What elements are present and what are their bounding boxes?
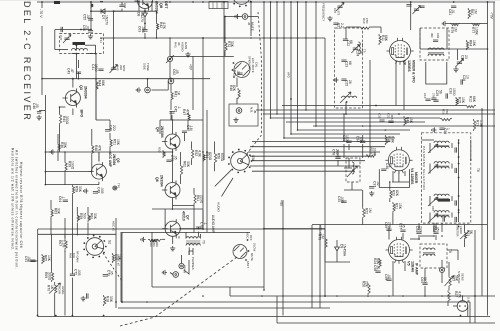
wire VFO bus line [270, 2, 272, 118]
svg-text:R20: R20 [392, 190, 396, 196]
coil VFO slug [342, 96, 357, 98]
junction [458, 195, 460, 197]
svg-text:16K: 16K [472, 40, 476, 47]
svg-text:Q5: Q5 [116, 158, 120, 163]
resistor R34 [91, 3, 93, 9]
wire cathode loop [379, 169, 409, 187]
svg-text:4.7K: 4.7K [162, 22, 166, 30]
jack J5 NB [236, 108, 242, 114]
wire IF rail [298, 129, 411, 131]
filter box PASSBAND SELECTOR [422, 133, 471, 223]
junction [324, 295, 326, 297]
junction [263, 228, 265, 230]
svg-text:68K: 68K [384, 35, 388, 42]
svg-text:10K: 10K [117, 254, 121, 261]
svg-text:1M: 1M [368, 208, 372, 213]
svg-text:SPKR OFF: SPKR OFF [248, 56, 252, 70]
transistor Q5 AGC AMP [88, 162, 106, 181]
svg-text:Q6: Q6 [155, 177, 159, 182]
svg-text:0-375: 0-375 [336, 8, 340, 16]
wire switch arm [215, 170, 232, 187]
ground [233, 118, 238, 123]
svg-text:.005: .005 [100, 187, 104, 194]
svg-text:56: 56 [438, 90, 442, 94]
wire phones net [189, 251, 193, 255]
junction [202, 151, 204, 153]
resistor R69 [52, 271, 54, 282]
capacitor C90 [416, 232, 421, 234]
switch AGC knob [233, 244, 247, 258]
junction [270, 1, 272, 3]
capacitor C81 [451, 6, 456, 8]
svg-text:C45: C45 [174, 106, 178, 112]
wire -70V feed upper [41, 2, 43, 8]
resistor R67 [65, 239, 67, 250]
capacitor C64 [63, 200, 68, 202]
switch S2 [83, 235, 106, 259]
scan mark [0, 0, 500, 1]
wire T8 out [441, 260, 443, 268]
transformer box T5 VFO [335, 28, 363, 108]
svg-text:C37: C37 [373, 181, 377, 187]
tube V4 MIXER [385, 147, 412, 174]
svg-text:1M: 1M [453, 27, 457, 32]
resistor R17 [474, 119, 476, 131]
wire VFO bus line [283, 2, 285, 138]
svg-text:12BE6: 12BE6 [407, 60, 411, 72]
svg-text:1M: 1M [473, 9, 477, 14]
capacitor C17 [419, 6, 424, 8]
capacitor C55 [88, 19, 93, 21]
junction [474, 295, 476, 297]
junction right col [481, 109, 483, 111]
svg-text:C90: C90 [415, 226, 419, 232]
resistor R24 [379, 258, 381, 268]
svg-text:R15: R15 [458, 97, 462, 103]
capacitor C53 series [61, 27, 63, 32]
wire [51, 234, 53, 271]
svg-text:C35: C35 [337, 196, 341, 202]
junction [458, 163, 460, 165]
svg-text:IF AMP: IF AMP [414, 263, 418, 276]
svg-text:DET: DET [164, 1, 168, 9]
svg-text:R70: R70 [47, 285, 51, 291]
capacitor C73 [166, 160, 171, 162]
resistor R81 [468, 8, 470, 19]
resistor R62 [181, 164, 183, 176]
svg-text:J4: J4 [247, 22, 251, 26]
svg-text:R18: R18 [387, 136, 391, 142]
junction [453, 1, 455, 3]
resistor R11 [379, 34, 381, 45]
wire right inner border [481, 108, 483, 296]
svg-text:270: 270 [431, 93, 435, 98]
junction audio [172, 119, 174, 121]
capacitor C87 [443, 216, 445, 221]
svg-text:C83: C83 [436, 33, 440, 39]
capacitor C49 [93, 192, 98, 194]
capacitor C22 [343, 39, 348, 41]
wire IF rail [286, 121, 425, 123]
svg-text:.05: .05 [402, 223, 406, 228]
svg-text:56K: 56K [455, 275, 459, 282]
wire audio box bottom [152, 286, 264, 288]
svg-text:.47: .47 [70, 68, 74, 73]
junction [144, 10, 146, 12]
wire AGC long line [38, 228, 325, 230]
svg-text:82K: 82K [395, 190, 399, 197]
svg-text:.01: .01 [85, 25, 89, 30]
coil filter dense [438, 199, 450, 202]
svg-text:47K: 47K [186, 109, 190, 116]
capacitor section 1 [455, 147, 457, 152]
transistor Q3 [62, 89, 80, 108]
junction [283, 1, 285, 3]
wire AGC box verticals [311, 225, 313, 308]
wire Q6 out [173, 205, 195, 207]
capacitor C45 [169, 112, 174, 114]
diode D7 [101, 9, 105, 14]
wire bottom bus 2 [122, 301, 470, 303]
svg-text:T9: T9 [202, 240, 206, 244]
junction [80, 29, 82, 31]
svg-text:C43: C43 [67, 68, 71, 74]
capacitor C25 [341, 79, 346, 81]
coil filter section 4 [434, 211, 449, 213]
svg-text:R24: R24 [373, 258, 377, 264]
svg-text:C73: C73 [170, 155, 174, 161]
capacitor C58 [375, 271, 380, 273]
svg-text:C78: C78 [332, 149, 336, 155]
wire Q4 bias [160, 119, 203, 121]
wire VFO bus line [305, 2, 307, 110]
svg-text:Highest resistor R78 Highe: Highest resistor R78 Highest capacitor C… [19, 162, 23, 248]
svg-text:.1M: .1M [189, 125, 193, 131]
svg-text:1N270: 1N270 [140, 12, 144, 22]
wire switch S3A line [252, 170, 355, 172]
svg-text:Q7: Q7 [186, 215, 190, 220]
svg-text:R42: R42 [159, 22, 163, 28]
wire R41 bottom [170, 111, 172, 120]
resistor R50 [163, 150, 165, 158]
svg-text:.01: .01 [86, 14, 90, 19]
wire Q7 input [180, 228, 203, 230]
transformer T9 [186, 237, 200, 239]
transistor Q4 [162, 132, 180, 151]
wire C55 branch [55, 29, 91, 31]
svg-text:.05: .05 [175, 69, 179, 74]
wire IF rail [291, 133, 400, 135]
capacitor C41 [98, 69, 103, 71]
svg-text:R61: R61 [196, 195, 200, 201]
svg-text:CAL: CAL [255, 62, 259, 68]
resistor R16 [440, 119, 452, 121]
svg-text:1500: 1500 [94, 64, 98, 72]
svg-text:R27: R27 [454, 291, 458, 297]
svg-text:AGC #1: AGC #1 [111, 221, 115, 231]
svg-text:C53: C53 [443, 128, 447, 134]
svg-text:R63: R63 [53, 208, 57, 214]
wire VFO bus line [276, 2, 278, 114]
svg-text:MIXER & VFO: MIXER & VFO [411, 60, 415, 83]
junction [282, 228, 284, 230]
svg-text:.05: .05 [110, 270, 114, 275]
svg-text:R11: R11 [381, 35, 385, 41]
jack PHONES [179, 263, 184, 268]
capacitor C69 [386, 229, 391, 231]
jack J4 MUTE [242, 14, 248, 20]
wire IF rail [282, 105, 465, 107]
svg-text:C63: C63 [138, 26, 142, 32]
junction [95, 78, 97, 80]
svg-text:C23: C23 [345, 61, 349, 67]
wire switch S3A line [252, 160, 365, 162]
svg-text:R21: R21 [395, 203, 399, 209]
svg-text:4.3K: 4.3K [197, 150, 201, 158]
junction left col [45, 151, 47, 153]
meter M [457, 301, 468, 312]
svg-text:33K: 33K [186, 161, 190, 168]
svg-text:C66: C66 [123, 3, 127, 9]
svg-text:T8: T8 [448, 249, 452, 253]
wire filter spine [458, 140, 460, 222]
svg-text:R48: R48 [94, 145, 98, 151]
resistor R41 [171, 91, 173, 101]
junction [458, 142, 460, 144]
tube V5 IF AMP [386, 237, 413, 264]
svg-text:TONE: TONE [146, 63, 150, 71]
junction rail 78 [41, 78, 43, 80]
wire V4 pin stubs [392, 171, 394, 182]
svg-text:R12: R12 [469, 96, 473, 102]
svg-text:C16: C16 [423, 93, 427, 99]
svg-text:AGC AMP: AGC AMP [108, 152, 112, 168]
tube V3 MIXER VFO [387, 38, 414, 65]
wire IF rail [313, 125, 495, 127]
svg-text:1500: 1500 [345, 135, 349, 143]
svg-text:136K: 136K [474, 27, 478, 36]
ground [185, 52, 190, 57]
wire S meter [464, 225, 466, 232]
svg-text:.01: .01 [451, 9, 455, 14]
junction row rail38 [113, 37, 115, 39]
capacitor C56 [88, 31, 93, 33]
resistor R46b [404, 116, 406, 126]
svg-text:NPO: NPO [122, 65, 126, 72]
svg-text:C81: C81 [448, 9, 452, 15]
svg-text:R84: R84 [469, 40, 473, 46]
svg-text:240: 240 [335, 149, 339, 155]
wire T11 pri down [75, 54, 77, 79]
svg-text:J5: J5 [253, 110, 257, 114]
capacitor C38 [346, 141, 351, 143]
svg-text:100K: 100K [372, 148, 376, 157]
wire [170, 273, 173, 275]
svg-text:AGC: AGC [245, 232, 249, 239]
svg-text:Q3: Q3 [79, 85, 83, 90]
svg-text:BFO: BFO [80, 110, 84, 118]
wire left mid line [45, 151, 160, 153]
svg-text:C31: C31 [378, 113, 382, 119]
svg-text:FREQUENCY: FREQUENCY [321, 3, 325, 21]
svg-text:T11: T11 [99, 38, 103, 43]
capacitor C78 [335, 157, 340, 159]
capacitor C83 [433, 40, 438, 42]
capacitor C19 [433, 100, 438, 102]
ground [136, 87, 141, 92]
svg-text:R54: R54 [205, 152, 209, 158]
svg-text:1N458A: 1N458A [343, 244, 347, 257]
svg-text:.01: .01 [27, 256, 31, 261]
svg-text:1500: 1500 [452, 88, 456, 96]
svg-text:220: 220 [112, 125, 116, 131]
diode D8 [143, 13, 148, 19]
wire Q8 collector [138, 1, 140, 11]
wire Q7 base feed [152, 208, 203, 210]
svg-text:R25: R25 [451, 275, 455, 281]
svg-text:MUTE: MUTE [250, 253, 254, 261]
jack SPKR [173, 272, 179, 278]
wire lower box top [122, 232, 250, 234]
resistor R42 [157, 22, 159, 31]
svg-text:R22: R22 [365, 208, 369, 214]
wire +9V col left [192, 56, 194, 110]
svg-text:R19: R19 [114, 254, 118, 260]
junction [398, 113, 400, 115]
switch CAL knob [234, 61, 250, 77]
wire switch S3A line [250, 155, 370, 157]
wire [144, 23, 146, 29]
svg-text:C22: C22 [346, 40, 350, 46]
svg-text:C57: C57 [398, 223, 402, 229]
svg-text:LEVEL: LEVEL [61, 286, 65, 295]
capacitor C47 [182, 131, 187, 133]
svg-text:15K: 15K [445, 109, 449, 114]
resistor R79 [450, 24, 460, 26]
junction mixer [343, 113, 345, 115]
pot R70 [55, 284, 57, 295]
svg-text:D7: D7 [101, 15, 105, 19]
wire T4 frame [419, 28, 421, 49]
svg-text:47K: 47K [97, 145, 101, 152]
svg-text:20: 20 [464, 55, 468, 59]
svg-text:C56: C56 [82, 25, 86, 31]
box N.B. jack [229, 104, 258, 126]
svg-text:C36: C36 [385, 163, 389, 169]
capacitor C70 [103, 275, 108, 277]
wire T11 pins [75, 46, 77, 51]
junction [250, 1, 252, 3]
wire bottom bus 1 [230, 295, 495, 297]
capacitor C29 [431, 98, 436, 100]
test point TP1 [113, 186, 117, 190]
junction [103, 315, 105, 317]
resistor R36 [58, 143, 60, 151]
capacitor C53 [439, 128, 444, 130]
capacitor C28 [461, 79, 463, 84]
ground [81, 296, 86, 301]
coil T8 primary [423, 248, 435, 250]
svg-text:390: 390 [430, 33, 434, 38]
wire Q7 emitter [172, 236, 174, 244]
svg-text:R72: R72 [227, 41, 231, 47]
ground [442, 21, 447, 26]
mech dashed link S2 [103, 253, 122, 281]
svg-text:15Ω: 15Ω [365, 18, 369, 24]
wire V5 pins [392, 261, 394, 296]
capacitor C76 [196, 227, 201, 229]
wire bottom bus 4 [38, 316, 490, 318]
svg-text:.1: .1 [61, 196, 65, 199]
svg-text:68: 68 [349, 40, 353, 44]
wire plate resistors [447, 23, 488, 25]
junction [290, 98, 292, 100]
junction [458, 212, 460, 214]
resistor R27 [448, 291, 450, 303]
svg-text:C25: C25 [345, 80, 349, 86]
svg-text:S3A: S3A [251, 155, 255, 162]
resistor R47 [188, 113, 190, 122]
svg-text:33K: 33K [230, 41, 234, 48]
svg-text:2N3394: 2N3394 [84, 86, 88, 99]
junction [315, 1, 317, 3]
junction [121, 301, 123, 303]
resistor R22 [363, 207, 365, 219]
svg-text:R65: R65 [44, 255, 48, 261]
transistor Q6 [162, 181, 180, 200]
svg-text:C24: C24 [356, 50, 360, 56]
svg-text:R60: R60 [90, 213, 94, 219]
svg-text:PHONES: PHONES [191, 257, 195, 270]
jack J6 [168, 78, 174, 84]
svg-text:15K: 15K [398, 203, 402, 210]
mech dashed link vertical [245, 12, 262, 156]
wire lower box top left [38, 233, 116, 235]
wire IF rail [256, 109, 495, 111]
wire AGC line to Q5 [45, 184, 99, 186]
svg-text:FAST: FAST [246, 261, 250, 268]
capacitor C43 [76, 72, 81, 74]
svg-text:.005: .005 [340, 196, 344, 203]
wire R46 col [236, 78, 238, 88]
coil T7 [352, 162, 354, 174]
junction [290, 1, 292, 3]
capacitor C72 [70, 274, 75, 276]
capacitor C21 [333, 23, 338, 25]
svg-text:AUDIO: AUDIO [181, 42, 185, 52]
wire switch S3A line [248, 151, 380, 153]
svg-text:AUDIO: AUDIO [216, 202, 220, 212]
capacitor trimmer section 4 [428, 214, 438, 223]
wire [170, 84, 172, 91]
capacitor C20 trimmer [337, 6, 342, 8]
wire V5 grid [410, 238, 420, 240]
svg-text:+9V: +9V [279, 200, 283, 207]
junction bottom bus [121, 301, 123, 303]
wire C45 bottom [171, 115, 173, 120]
svg-text:26: 26 [348, 80, 352, 84]
wire detector emitter [151, 1, 153, 11]
svg-text:-70V: -70V [490, 12, 494, 20]
capacitor section 4 [455, 217, 457, 222]
svg-text:C34: C34 [355, 136, 359, 142]
wire [60, 106, 66, 108]
svg-text:.05: .05 [236, 70, 240, 75]
resistor R40 [60, 113, 62, 125]
svg-text:C26: C26 [460, 55, 464, 61]
wire [147, 79, 149, 88]
wire V3 pin stubs [395, 61, 397, 106]
